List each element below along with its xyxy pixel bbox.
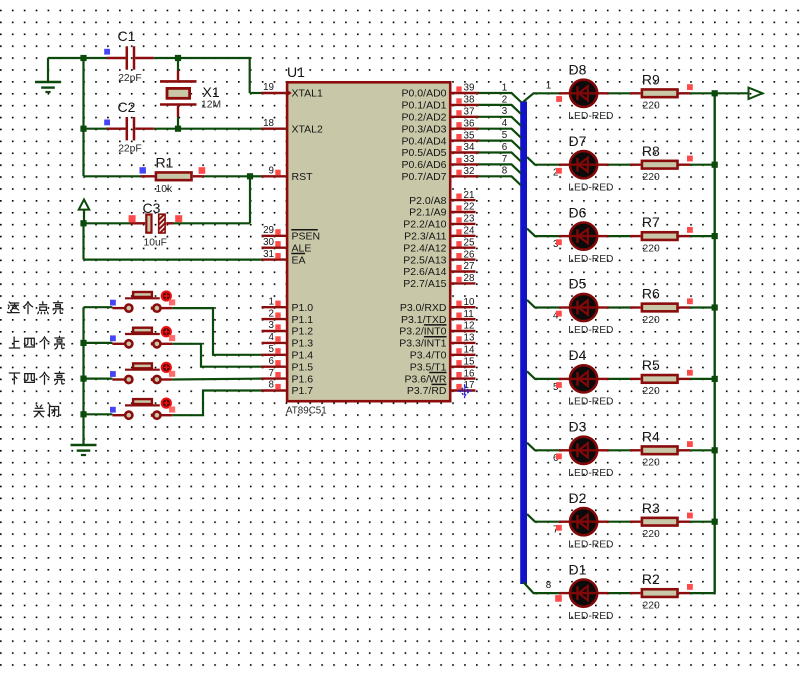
svg-text:P0.0/AD0: P0.0/AD0 <box>402 88 447 100</box>
svg-text:7: 7 <box>269 368 274 379</box>
svg-text:P0.5/AD5: P0.5/AD5 <box>402 147 447 159</box>
svg-text:220: 220 <box>643 600 660 611</box>
svg-text:U1: U1 <box>287 64 305 80</box>
svg-text:D6: D6 <box>569 204 587 220</box>
svg-text:D7: D7 <box>569 133 587 149</box>
svg-text:R7: R7 <box>642 214 660 230</box>
svg-text:P0.6/AD6: P0.6/AD6 <box>402 159 447 171</box>
svg-text:P2.4/A12: P2.4/A12 <box>403 242 446 254</box>
svg-text:LED-RED: LED-RED <box>568 182 613 193</box>
svg-text:D2: D2 <box>569 490 587 506</box>
svg-text:P3.4/T0: P3.4/T0 <box>410 350 447 362</box>
svg-text:8: 8 <box>502 166 508 177</box>
svg-text:P2.1/A9: P2.1/A9 <box>409 207 447 219</box>
svg-text:29: 29 <box>263 225 274 236</box>
svg-text:220: 220 <box>643 172 660 183</box>
svg-text:PSEN: PSEN <box>292 231 321 243</box>
svg-text:C1: C1 <box>118 28 136 44</box>
svg-text:1: 1 <box>502 82 507 93</box>
svg-text:27: 27 <box>464 261 475 272</box>
svg-text:P0.3/AD3: P0.3/AD3 <box>402 123 447 135</box>
svg-text:D5: D5 <box>569 276 587 292</box>
svg-text:220: 220 <box>643 529 660 540</box>
svg-text:D3: D3 <box>569 419 587 435</box>
svg-text:35: 35 <box>464 130 475 141</box>
svg-text:P3.5/T1: P3.5/T1 <box>410 361 447 373</box>
svg-text:D4: D4 <box>569 347 587 363</box>
svg-text:13: 13 <box>464 333 475 344</box>
svg-text:22pF: 22pF <box>118 73 141 84</box>
svg-text:220: 220 <box>643 101 660 112</box>
svg-text:EA: EA <box>292 254 306 266</box>
svg-text:P3.7/RD: P3.7/RD <box>407 385 447 397</box>
svg-text:P1.1: P1.1 <box>292 314 314 326</box>
svg-text:LED-RED: LED-RED <box>568 539 613 550</box>
svg-text:3: 3 <box>269 320 275 331</box>
svg-text:P3.2/INT0: P3.2/INT0 <box>399 326 446 338</box>
svg-text:38: 38 <box>464 95 475 106</box>
svg-text:9: 9 <box>269 166 274 177</box>
svg-text:P2.3/A11: P2.3/A11 <box>404 231 447 243</box>
svg-text:LED-RED: LED-RED <box>568 254 613 265</box>
svg-text:2: 2 <box>502 94 507 105</box>
svg-text:P3.0/RXD: P3.0/RXD <box>400 302 447 314</box>
svg-text:23: 23 <box>464 214 475 225</box>
svg-text:16: 16 <box>464 368 475 379</box>
svg-text:21: 21 <box>464 190 475 201</box>
svg-text:R1: R1 <box>156 155 174 171</box>
svg-text:12: 12 <box>464 321 475 332</box>
svg-text:P1.5: P1.5 <box>292 361 314 373</box>
svg-text:32: 32 <box>464 166 475 177</box>
svg-text:R8: R8 <box>642 143 660 159</box>
svg-text:14: 14 <box>464 345 475 356</box>
svg-text:18: 18 <box>263 118 274 129</box>
svg-text:31: 31 <box>263 249 274 260</box>
svg-text:R6: R6 <box>642 286 660 302</box>
svg-text:26: 26 <box>464 249 475 260</box>
svg-text:1: 1 <box>269 296 274 307</box>
svg-text:P1.3: P1.3 <box>292 338 314 350</box>
svg-text:37: 37 <box>464 107 475 118</box>
svg-text:R2: R2 <box>642 571 660 587</box>
svg-text:P2.0/A8: P2.0/A8 <box>409 195 447 207</box>
svg-text:R5: R5 <box>642 357 660 373</box>
svg-text:P3.1/TXD: P3.1/TXD <box>401 314 447 326</box>
svg-text:22: 22 <box>464 202 475 213</box>
svg-text:C3: C3 <box>143 200 161 216</box>
svg-text:LED-RED: LED-RED <box>568 325 613 336</box>
svg-text:P3.6/WR: P3.6/WR <box>404 373 446 385</box>
svg-text:C2: C2 <box>118 99 136 115</box>
svg-text:220: 220 <box>643 315 660 326</box>
svg-text:P2.2/A10: P2.2/A10 <box>403 219 446 231</box>
svg-text:X1: X1 <box>203 84 220 100</box>
svg-text:220: 220 <box>643 243 660 254</box>
svg-text:P1.4: P1.4 <box>292 350 314 362</box>
svg-text:36: 36 <box>464 118 475 129</box>
svg-text:R4: R4 <box>642 428 660 444</box>
svg-text:5: 5 <box>269 344 275 355</box>
svg-text:10uF: 10uF <box>144 237 167 248</box>
svg-text:P1.7: P1.7 <box>292 385 314 397</box>
svg-text:10k: 10k <box>156 184 173 195</box>
svg-text:6: 6 <box>269 356 275 367</box>
svg-text:P0.7/AD7: P0.7/AD7 <box>402 171 447 183</box>
svg-text:39: 39 <box>464 83 475 94</box>
svg-text:XTAL2: XTAL2 <box>292 123 323 135</box>
svg-text:P1.2: P1.2 <box>292 326 314 338</box>
svg-text:LED-RED: LED-RED <box>568 468 613 479</box>
svg-text:6: 6 <box>502 142 508 153</box>
svg-text:24: 24 <box>464 226 475 237</box>
svg-text:LED-RED: LED-RED <box>568 611 613 622</box>
svg-text:P1.0: P1.0 <box>292 302 314 314</box>
svg-text:22pF: 22pF <box>118 144 141 155</box>
svg-text:ALE: ALE <box>292 242 312 254</box>
svg-text:R9: R9 <box>642 71 660 87</box>
svg-text:3: 3 <box>502 106 508 117</box>
svg-text:P0.2/AD2: P0.2/AD2 <box>402 112 447 124</box>
svg-text:12M: 12M <box>201 100 221 111</box>
svg-text:LED-RED: LED-RED <box>568 397 613 408</box>
svg-text:RST: RST <box>292 171 314 183</box>
svg-text:P0.4/AD4: P0.4/AD4 <box>402 135 447 147</box>
svg-text:LED-RED: LED-RED <box>568 111 613 122</box>
svg-text:P2.7/A15: P2.7/A15 <box>403 278 446 290</box>
svg-text:220: 220 <box>643 458 660 469</box>
svg-text:11: 11 <box>464 309 474 320</box>
svg-text:R3: R3 <box>642 500 660 516</box>
svg-text:2: 2 <box>269 308 274 319</box>
svg-text:AT89C51: AT89C51 <box>286 405 327 416</box>
svg-text:33: 33 <box>464 154 475 165</box>
svg-text:5: 5 <box>502 130 508 141</box>
svg-text:10: 10 <box>464 297 475 308</box>
svg-text:P2.6/A14: P2.6/A14 <box>403 266 446 278</box>
svg-text:P3.3/INT1: P3.3/INT1 <box>399 338 446 350</box>
svg-text:8: 8 <box>546 580 552 591</box>
svg-text:8: 8 <box>269 380 275 391</box>
svg-text:XTAL1: XTAL1 <box>292 88 323 100</box>
svg-text:7: 7 <box>502 154 507 165</box>
svg-text:D1: D1 <box>569 561 587 577</box>
svg-text:28: 28 <box>464 273 475 284</box>
svg-text:220: 220 <box>643 386 660 397</box>
svg-text:4: 4 <box>502 118 508 129</box>
svg-text:D8: D8 <box>569 62 587 78</box>
svg-text:P0.1/AD1: P0.1/AD1 <box>402 100 447 112</box>
svg-text:19: 19 <box>263 82 274 93</box>
svg-text:P2.5/A13: P2.5/A13 <box>403 254 446 266</box>
svg-text:34: 34 <box>464 142 475 153</box>
svg-text:15: 15 <box>464 356 475 367</box>
svg-text:1: 1 <box>546 81 551 92</box>
svg-text:4: 4 <box>269 332 275 343</box>
svg-text:P1.6: P1.6 <box>292 373 314 385</box>
svg-text:30: 30 <box>263 237 274 248</box>
svg-text:25: 25 <box>464 237 475 248</box>
